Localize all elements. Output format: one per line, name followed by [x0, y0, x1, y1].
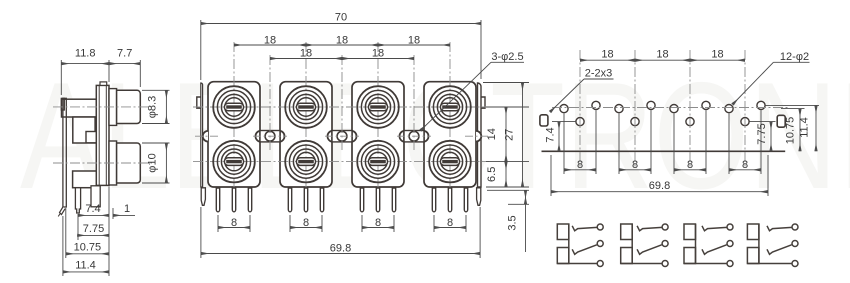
- bottom ext lines: [77, 214, 79, 240]
- centerline bottom jack axis: [53, 162, 152, 164]
- svg-text:10.75: 10.75: [785, 117, 797, 145]
- bracket foot: [60, 207, 66, 215]
- edge notch right: [476, 131, 481, 142]
- svg-text:11.8: 11.8: [75, 48, 96, 60]
- dim 8 x4: [564, 169, 596, 171]
- column centerlines: [233, 42, 235, 200]
- module 2: [280, 82, 332, 187]
- svg-text:11.4: 11.4: [75, 259, 96, 271]
- dim 3.5: [525, 190, 527, 204]
- svg-text:10.75: 10.75: [74, 241, 102, 253]
- horizontal centerline: [552, 107, 790, 109]
- dim 70: [201, 23, 481, 25]
- svg-text:70: 70: [335, 12, 347, 24]
- bracket plate: [63, 98, 66, 207]
- svg-text:8: 8: [577, 159, 583, 171]
- ext lines 69.8: [200, 207, 202, 258]
- body upper block: [62, 99, 97, 117]
- jack J3 bottom: [357, 141, 399, 183]
- svg-text:φ8.3: φ8.3: [147, 96, 159, 118]
- switch contact top 4: [767, 226, 792, 231]
- svg-text:7.7: 7.7: [117, 48, 132, 60]
- mounting tab 3: [399, 131, 428, 142]
- dim 27: [522, 83, 524, 188]
- svg-text:18: 18: [601, 49, 613, 61]
- bracket hook: [61, 98, 64, 110]
- holes module 1: [560, 101, 600, 125]
- body lower block: [73, 171, 98, 188]
- svg-text:8: 8: [231, 217, 237, 229]
- mounting tab 2: [327, 131, 356, 142]
- svg-text:18: 18: [372, 48, 384, 60]
- ext lines phi10: [142, 142, 170, 144]
- top barrel: [117, 90, 141, 123]
- column centerline 1: [579, 50, 581, 168]
- jack J1 top: [213, 86, 255, 128]
- centerline top jack axis: [53, 106, 152, 108]
- left leg: [201, 188, 205, 206]
- ext 10.75: [781, 108, 805, 110]
- label 2-2x3 leader: [584, 78, 614, 80]
- dim 7.7: [109, 63, 140, 65]
- left end strip: [201, 83, 203, 187]
- slot right 2x3: [777, 115, 785, 127]
- dim 7.4: [558, 122, 560, 152]
- svg-text:8: 8: [303, 217, 309, 229]
- svg-text:14: 14: [486, 128, 498, 140]
- svg-text:8: 8: [687, 159, 693, 171]
- terminal circles 4: [792, 224, 798, 230]
- pins module 3: [360, 188, 363, 212]
- dim 7.75: [770, 122, 772, 152]
- dim 18 row1: [234, 44, 306, 46]
- right end hook: [481, 97, 485, 108]
- wire common 3: [695, 224, 697, 264]
- dim 7.4: [78, 214, 109, 216]
- jack symbol pair 1 body: [557, 224, 569, 240]
- bottom ext lines 8 dims: [217, 215, 219, 232]
- dim 10.75: [799, 109, 801, 152]
- svg-text:18: 18: [264, 35, 276, 47]
- edge notch left: [203, 131, 208, 142]
- svg-text:8: 8: [447, 217, 453, 229]
- svg-text:7.4: 7.4: [545, 127, 557, 142]
- svg-text:18: 18: [711, 49, 723, 61]
- top spacer: [109, 89, 117, 126]
- column centerline 4: [744, 50, 746, 168]
- dim 7.75: [77, 234, 109, 236]
- right end strip: [478, 83, 482, 187]
- switch contact mid 3: [702, 245, 727, 255]
- terminal circles 3: [727, 224, 733, 230]
- latch tab: [86, 132, 97, 143]
- svg-text:8: 8: [632, 159, 638, 171]
- holes module 3: [670, 101, 710, 125]
- jack J3 top: [357, 86, 399, 128]
- side pin: [75, 188, 80, 213]
- svg-text:18: 18: [656, 49, 668, 61]
- wire common 4: [758, 224, 760, 264]
- ext lines 70: [200, 20, 202, 80]
- jack J4 top: [429, 86, 471, 128]
- jack J1 bottom: [213, 141, 255, 183]
- jack J2 top: [285, 86, 327, 128]
- svg-text:7.75: 7.75: [83, 223, 104, 235]
- board edge line: [542, 150, 786, 152]
- jack symbol pair 3 body: [684, 224, 696, 240]
- column centerline 2: [634, 50, 636, 168]
- dim 69.8: [201, 253, 480, 255]
- ext lines 8 dims: [563, 114, 565, 175]
- module 1: [208, 82, 260, 187]
- dim phi8.3: [165, 90, 167, 123]
- row centerline bottom: [193, 161, 489, 163]
- ext lines 69.8: [550, 155, 552, 196]
- svg-text:12-φ2: 12-φ2: [780, 51, 809, 63]
- body middle block: [73, 117, 95, 143]
- svg-text:7.4: 7.4: [85, 203, 100, 215]
- dim 69.8: [551, 191, 768, 193]
- dim 8 x4: [218, 227, 250, 229]
- terminal circles 2: [662, 224, 668, 230]
- wire common 2: [631, 224, 633, 264]
- jack symbol pair 2 body: [621, 224, 633, 240]
- flange stub pin: [91, 186, 100, 207]
- module 4: [424, 82, 476, 187]
- mounting tab 1: [255, 131, 284, 142]
- switch contact mid 2: [637, 245, 662, 255]
- label 12-phi2 leader: [773, 61, 809, 63]
- ext 11.4: [766, 104, 820, 106]
- switch contact mid 1: [572, 245, 597, 255]
- flange top tab: [100, 82, 107, 86]
- svg-text:2-2x3: 2-2x3: [585, 68, 613, 80]
- svg-text:18: 18: [336, 35, 348, 47]
- svg-text:11.4: 11.4: [799, 117, 811, 138]
- bottom spacer: [109, 141, 117, 185]
- gap centerlines: [269, 55, 271, 152]
- ext 7.75: [750, 121, 776, 123]
- dim 11.8: [61, 63, 109, 65]
- leader 3-phi2.5: [491, 61, 524, 63]
- jack J4 bottom: [429, 141, 471, 183]
- svg-text:1: 1: [124, 203, 130, 215]
- svg-text:69.8: 69.8: [330, 243, 351, 255]
- dim 11.4: [815, 105, 817, 151]
- svg-text:69.8: 69.8: [649, 180, 670, 192]
- svg-text:3.5: 3.5: [507, 215, 519, 230]
- dim 1: [113, 214, 135, 216]
- right ext lines: [483, 82, 529, 84]
- module 3: [352, 82, 404, 187]
- switch contact top 3: [702, 226, 727, 231]
- pins module 2: [288, 188, 291, 212]
- dim 14: [505, 107, 507, 162]
- dim 18 row2: [270, 58, 342, 60]
- switch contact mid 4: [767, 245, 792, 255]
- dim 18 x3: [580, 59, 635, 61]
- svg-text:8: 8: [742, 159, 748, 171]
- terminal circles 1: [597, 224, 603, 230]
- pins module 1: [216, 188, 219, 212]
- holes module 4: [725, 101, 765, 125]
- column centerline 3: [689, 50, 691, 168]
- bottom barrel: [117, 143, 141, 183]
- ext lines phi8.3: [142, 89, 170, 91]
- holes module 2: [615, 101, 655, 125]
- dim 10.75: [66, 253, 109, 255]
- right leg: [477, 188, 481, 206]
- switch contact top 2: [637, 226, 662, 231]
- pins module 4: [432, 188, 435, 212]
- jack symbol pair 4 body: [747, 224, 759, 240]
- jack J2 bottom: [285, 141, 327, 183]
- dim 11.4: [63, 271, 109, 273]
- flange plate: [96, 85, 109, 185]
- svg-text:6.5: 6.5: [486, 167, 498, 182]
- svg-text:7.75: 7.75: [756, 123, 768, 144]
- svg-text:27: 27: [504, 129, 516, 141]
- wire common 1: [568, 224, 570, 264]
- left end hook: [197, 97, 201, 108]
- ext lines top dims: [60, 60, 62, 95]
- svg-text:18: 18: [300, 48, 312, 60]
- svg-text:φ10: φ10: [147, 153, 159, 172]
- switch contact top 1: [572, 226, 597, 231]
- svg-text:18: 18: [408, 35, 420, 47]
- mid height centerline segments: [195, 135, 219, 137]
- dim 6.5: [505, 162, 507, 187]
- dim phi10: [165, 143, 167, 183]
- slot left 2x3: [540, 115, 548, 126]
- row centerline top: [193, 106, 489, 108]
- ext 7.4: [552, 121, 576, 123]
- svg-text:3-φ2.5: 3-φ2.5: [491, 51, 523, 63]
- svg-text:8: 8: [375, 217, 381, 229]
